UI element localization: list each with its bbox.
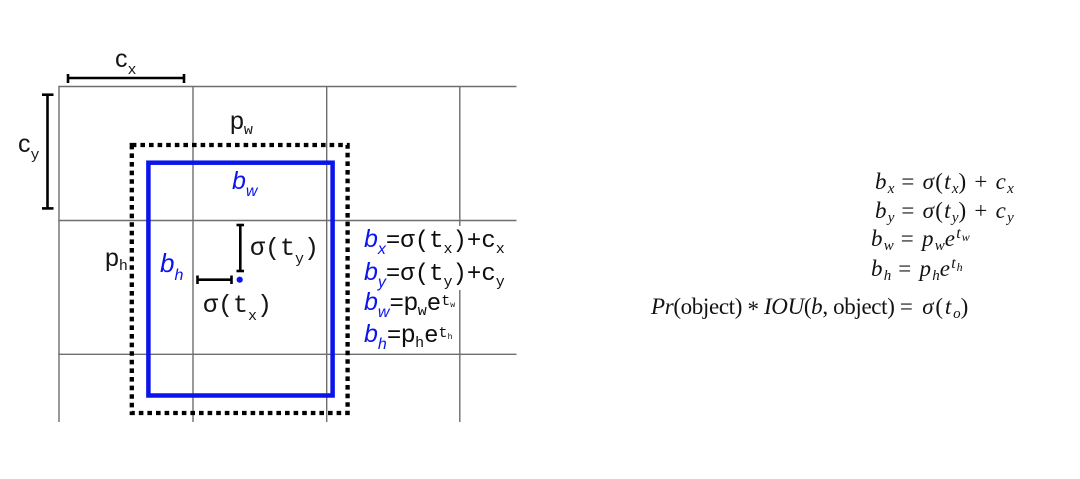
box center blue dot [237, 277, 243, 283]
grid horizontal line 3 [58, 353, 516, 355]
label c_y [18, 132, 40, 163]
label c_x [115, 47, 137, 78]
c_x measurement bracket [68, 74, 184, 83]
math equation b_h = p_h e^t_h [871, 256, 963, 284]
math equation b_y = sigma(t_y) + c_y [875, 199, 1014, 226]
grid horizontal line 2 [58, 220, 516, 222]
math equation b_x = sigma(t_x) + c_x [875, 170, 1014, 197]
math equation Pr(object) * IOU(b, object) = sigma(t_o) [651, 295, 970, 322]
sigma(t_y) offset tick line [237, 225, 245, 271]
grid vertical line 1 [58, 87, 60, 423]
math equation b_w = p_w e^t_w [871, 226, 970, 254]
predicted box b (blue) [148, 163, 332, 396]
grid horizontal line 1 [58, 86, 516, 88]
label p_w [230, 109, 253, 138]
grid vertical line 4 [459, 87, 461, 423]
blue equation line b_x [364, 227, 505, 258]
label p_h [105, 246, 128, 274]
c_y measurement bracket [42, 95, 54, 209]
label b_w (blue) [232, 169, 257, 200]
grid vertical line 3 [326, 87, 328, 423]
sigma(t_x) offset tick line [198, 276, 232, 285]
blue equation line b_h [364, 322, 452, 353]
blue equation line b_y [364, 260, 505, 291]
blue equation line b_w [364, 290, 455, 321]
grid vertical line 2 [192, 87, 194, 423]
label b_h (blue) [160, 250, 183, 284]
prior box p (dotted) [132, 145, 348, 413]
label sigma(t_x) [203, 293, 272, 324]
white mask behind blue equations hiding grid vertical line 4 [361, 226, 513, 290]
label sigma(t_y) [250, 236, 319, 267]
